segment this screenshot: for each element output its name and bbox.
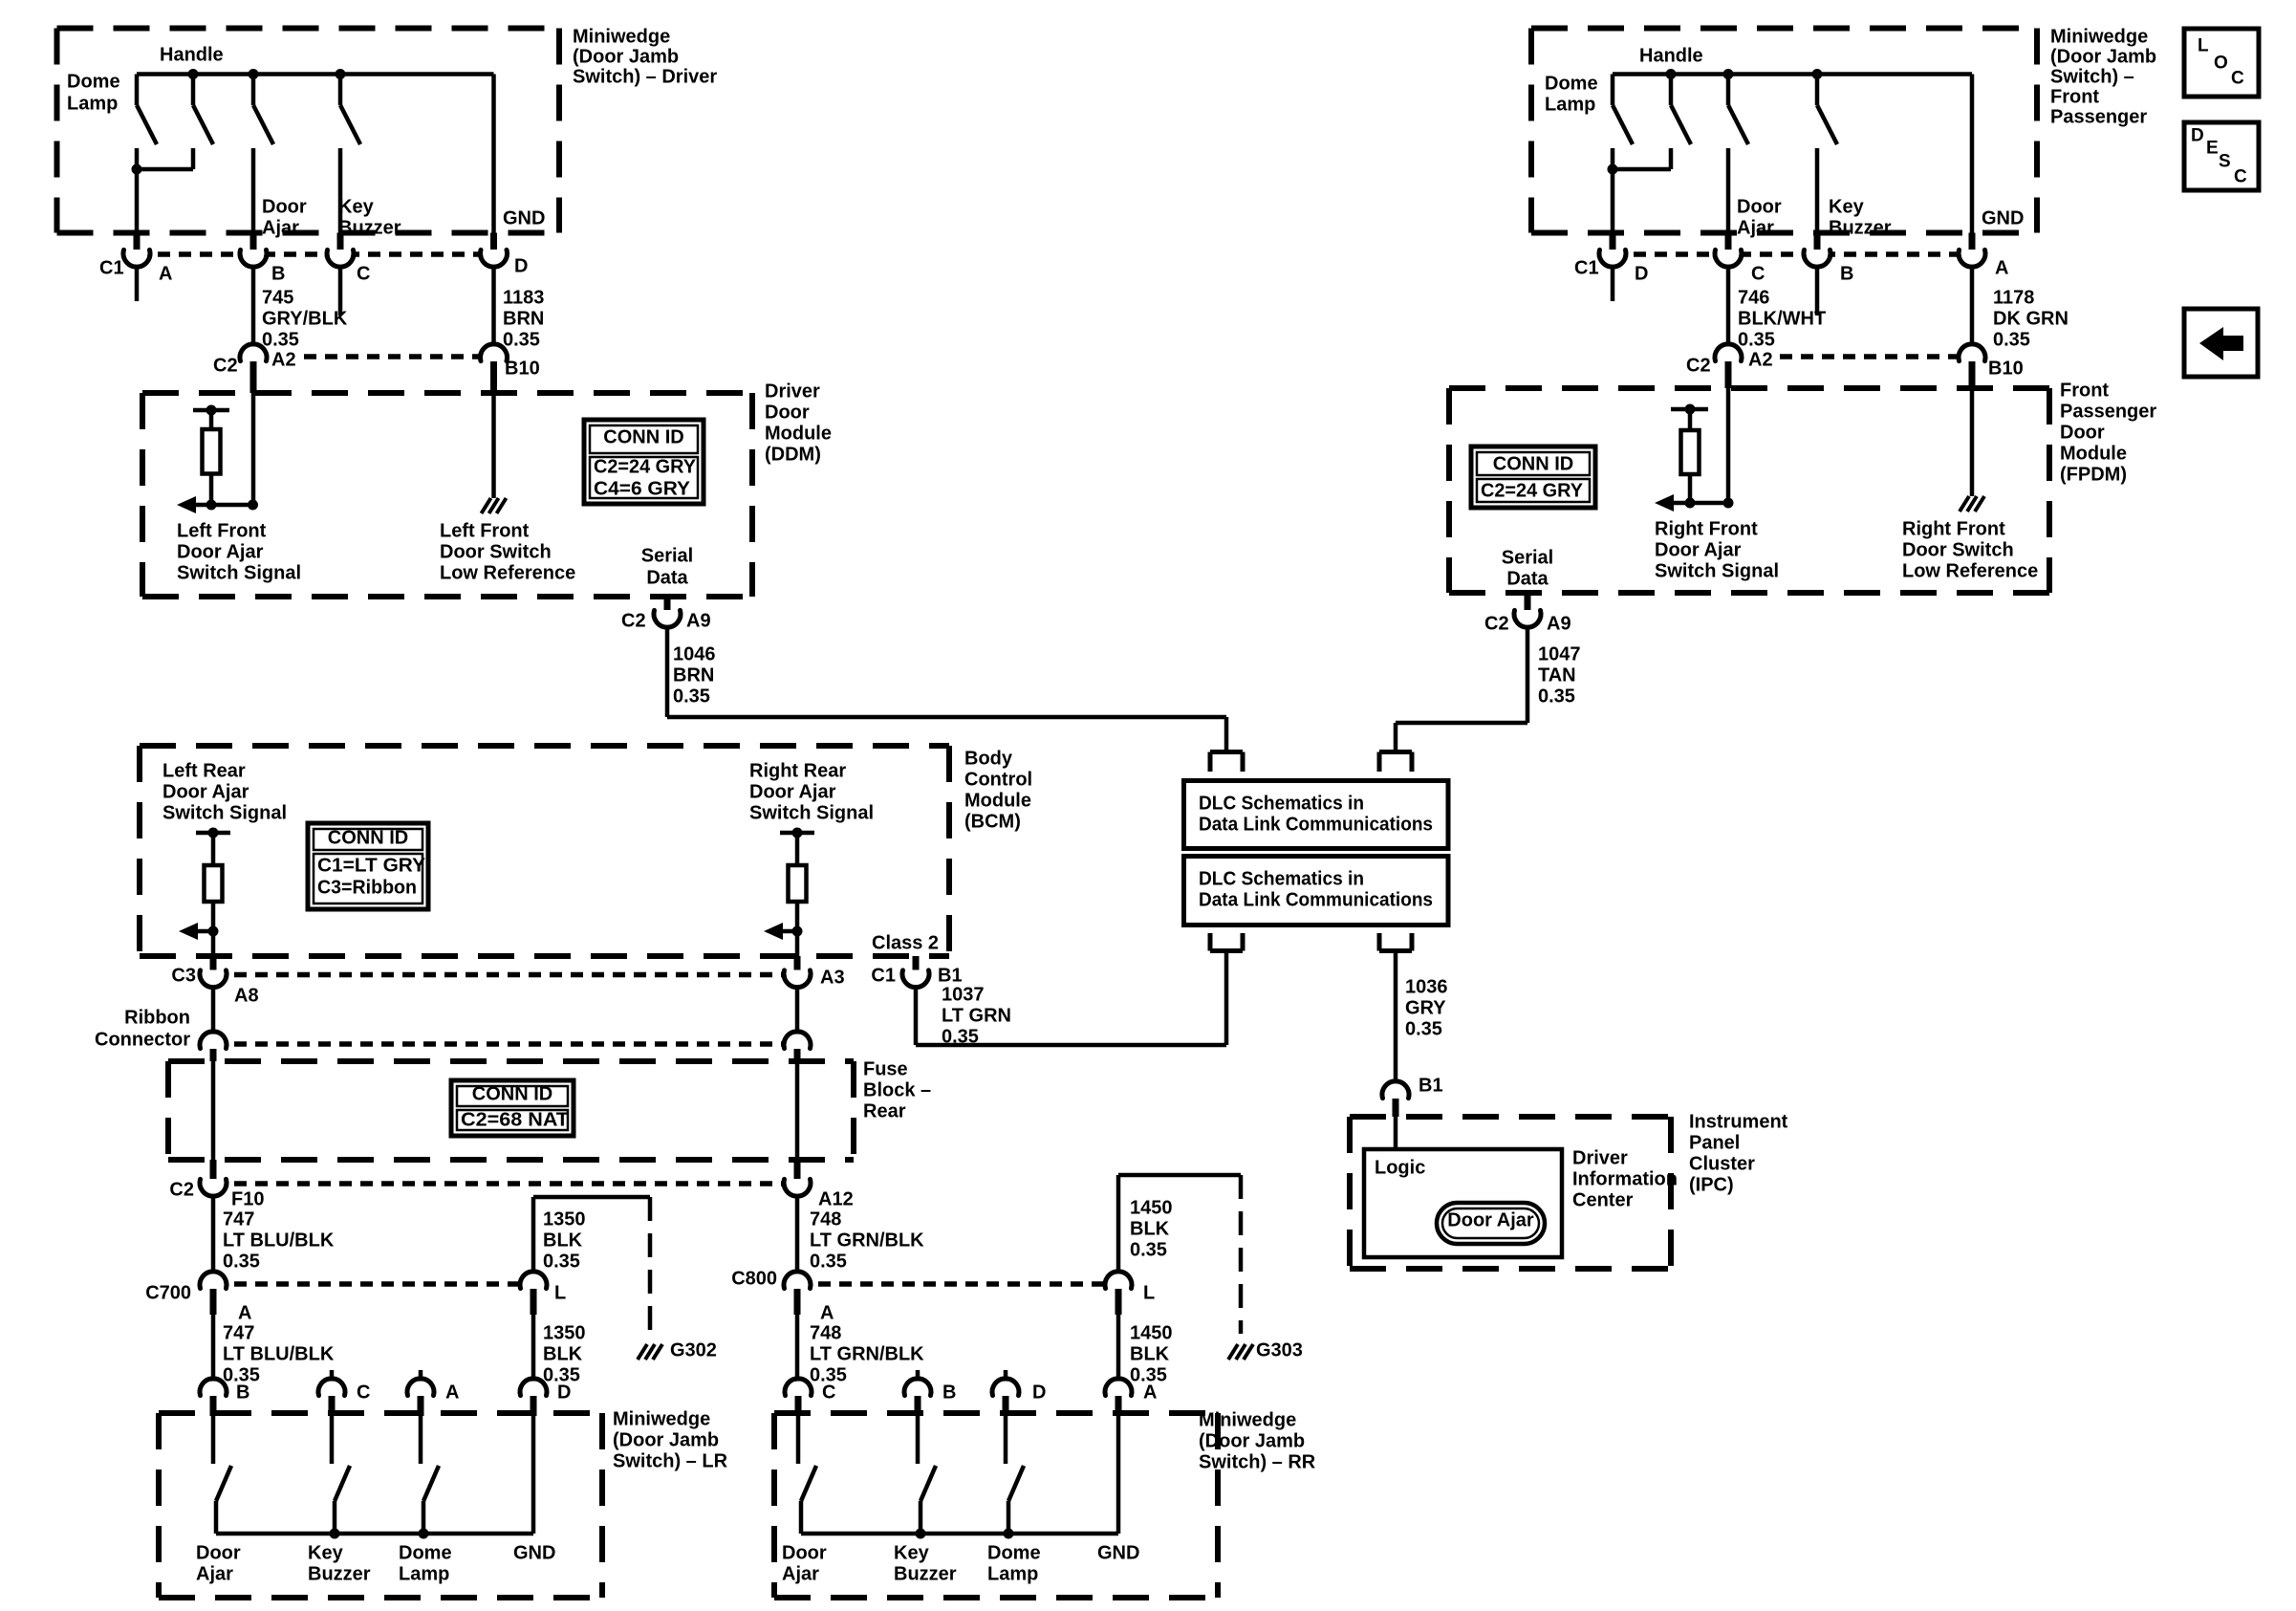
arrow right front door ajar switch signal (1666, 501, 1728, 506)
svg-text:Door Ajar: Door Ajar (1655, 539, 1742, 560)
svg-text:Lamp: Lamp (1545, 94, 1595, 115)
wire 1047 TAN run (1526, 625, 1530, 723)
svg-text:Connector: Connector (95, 1029, 190, 1050)
svg-text:0.35: 0.35 (503, 329, 540, 350)
svg-text:Key: Key (1829, 196, 1865, 217)
svg-text:0.35: 0.35 (942, 1026, 979, 1047)
svg-text:Information: Information (1572, 1168, 1678, 1189)
svg-text:C2: C2 (1686, 355, 1711, 376)
switch dome lamp (RR) (1004, 1416, 1008, 1464)
svg-text:Passenger: Passenger (2050, 106, 2147, 127)
svg-text:A2: A2 (271, 349, 296, 370)
svg-text:Low Reference: Low Reference (1902, 560, 2038, 581)
wire tab bottom right (1379, 948, 1412, 953)
svg-text:Center: Center (1572, 1189, 1634, 1210)
pin A3 connector (BCM) (787, 963, 809, 985)
svg-text:A2: A2 (1748, 349, 1773, 370)
svg-text:Low Reference: Low Reference (440, 562, 575, 583)
svg-text:C1: C1 (1574, 257, 1599, 278)
svg-text:(Door Jamb: (Door Jamb (613, 1429, 719, 1450)
wire B1 to logic (1394, 1117, 1398, 1149)
svg-text:BRN: BRN (503, 308, 544, 329)
resistor BCM left rear T-bar (196, 831, 230, 836)
svg-text:CONN ID: CONN ID (603, 426, 683, 447)
svg-text:LT GRN: LT GRN (942, 1005, 1011, 1026)
wire switch common (LR) (216, 1532, 533, 1536)
svg-text:C: C (2231, 69, 2244, 89)
pin B10 connector (FPDM) (1961, 347, 1983, 369)
svg-text:Dome: Dome (1545, 73, 1598, 94)
svg-text:Rear: Rear (863, 1100, 906, 1121)
svg-text:Data: Data (1506, 568, 1549, 589)
svg-text:1450: 1450 (1130, 1322, 1173, 1343)
svg-text:LT BLU/BLK: LT BLU/BLK (223, 1343, 335, 1364)
pin B1 connector (IPC) (1385, 1084, 1407, 1106)
svg-text:0.35: 0.35 (223, 1251, 260, 1272)
svg-text:Ajar: Ajar (196, 1563, 233, 1584)
miniwedge door jamb switch RR box (774, 1410, 1218, 1416)
svg-text:Buzzer: Buzzer (308, 1563, 371, 1584)
svg-text:Miniwedge: Miniwedge (2050, 26, 2148, 47)
svg-text:Switch) – RR: Switch) – RR (1199, 1451, 1316, 1472)
pin A2 connector C2 (FPDM) (1718, 347, 1740, 369)
svg-text:Control: Control (964, 769, 1032, 790)
svg-text:C1=LT GRY: C1=LT GRY (317, 855, 426, 876)
svg-text:GND: GND (1097, 1542, 1139, 1563)
wire B10 to ground (FPDM) (1970, 388, 1975, 496)
pin A9 connector C2 serial (FPDM) (1517, 603, 1539, 625)
resistor BCM left rear (205, 865, 223, 902)
wire 748 through fuse block (795, 1061, 800, 1160)
svg-text:(Door Jamb: (Door Jamb (573, 46, 679, 67)
svg-text:0.35: 0.35 (543, 1251, 580, 1272)
pin C connector (LR switch) (330, 1370, 335, 1382)
svg-text:Switch Signal: Switch Signal (749, 802, 874, 823)
svg-text:CONN ID: CONN ID (328, 827, 408, 848)
pin C stub end (driver) (338, 265, 343, 316)
svg-text:CONN ID: CONN ID (472, 1083, 552, 1104)
ground G302 (638, 1344, 647, 1360)
svg-text:Right Front: Right Front (1655, 518, 1758, 539)
svg-text:GND: GND (503, 207, 545, 229)
svg-text:Cluster: Cluster (1689, 1153, 1755, 1174)
svg-text:Key: Key (894, 1542, 930, 1563)
wire 1450 BLK to G303 (1116, 1175, 1121, 1274)
svg-text:G302: G302 (670, 1339, 717, 1361)
wire resistor to arrow (RR) (795, 902, 800, 956)
switch dome lamp blade2 (passenger) (1669, 75, 1674, 106)
pin C connector C1 (passenger) (1718, 243, 1740, 265)
wire A2 to arrow node (DDM) (251, 393, 256, 505)
pin D connector C1 (driver) (483, 243, 505, 265)
switch key buzzer (passenger) (1815, 75, 1820, 106)
wire 748 to RR switch (795, 1315, 800, 1382)
svg-text:C2: C2 (213, 355, 238, 376)
svg-text:0.35: 0.35 (1130, 1239, 1167, 1260)
connector row C2 fuse block (213, 1181, 797, 1186)
wire resistor to arrow (LR) (211, 902, 216, 956)
svg-text:Passenger: Passenger (2060, 401, 2156, 422)
svg-text:C1: C1 (871, 965, 896, 986)
pin A8 connector C3 (BCM) (203, 963, 225, 985)
wire 747 through fuse block (211, 1061, 216, 1160)
pin ribbon connector right (787, 1034, 809, 1056)
junction dot key buzzer (LR) (330, 1529, 340, 1539)
svg-text:1183: 1183 (503, 287, 544, 308)
junction dot handle-keybuzzer (passenger) (1812, 69, 1823, 79)
svg-text:BLK: BLK (543, 1343, 583, 1364)
svg-text:Door: Door (262, 196, 307, 217)
svg-text:Miniwedge: Miniwedge (573, 26, 670, 47)
svg-text:C2=24 GRY: C2=24 GRY (1481, 480, 1584, 501)
junction dot dome lamp (driver) (132, 164, 142, 175)
svg-text:D: D (557, 1382, 571, 1403)
svg-text:Module: Module (2060, 443, 2127, 464)
svg-text:(Door Jamb: (Door Jamb (2050, 46, 2156, 67)
svg-text:Door Ajar: Door Ajar (749, 781, 836, 802)
svg-text:Switch Signal: Switch Signal (162, 802, 287, 823)
connector row C2 (DDM) (304, 354, 494, 359)
svg-text:Block –: Block – (863, 1079, 931, 1100)
switch door ajar (LR) (211, 1416, 216, 1464)
svg-text:(DDM): (DDM) (765, 444, 821, 465)
svg-text:BLK: BLK (1130, 1343, 1170, 1364)
svg-text:Key: Key (338, 196, 375, 217)
svg-text:Lamp: Lamp (987, 1563, 1038, 1584)
pin C connector (RR switch) (788, 1382, 810, 1404)
svg-text:(IPC): (IPC) (1689, 1174, 1734, 1195)
resistor FPDM pullup T-bar (1671, 407, 1708, 412)
svg-text:Door: Door (196, 1542, 241, 1563)
svg-text:C3: C3 (171, 965, 196, 986)
pin A12 connector (fuse block) (787, 1172, 809, 1194)
svg-text:C700: C700 (145, 1282, 191, 1303)
svg-text:745: 745 (262, 287, 293, 308)
pin B connector (RR switch) (916, 1370, 921, 1382)
pin A connector C1 (driver) (126, 243, 148, 265)
junction dot resistor-arrow (FPDM) (1685, 498, 1696, 509)
svg-text:TAN: TAN (1538, 664, 1576, 686)
svg-text:GRY: GRY (1405, 997, 1446, 1018)
pin A connector C1 (passenger) (1961, 243, 1983, 265)
svg-text:A: A (445, 1382, 459, 1403)
svg-text:Miniwedge: Miniwedge (613, 1408, 710, 1429)
conn id table BCM (308, 823, 428, 909)
svg-text:BRN: BRN (673, 664, 714, 686)
svg-text:Switch) – LR: Switch) – LR (613, 1450, 728, 1471)
pin A connector (RR switch) (1108, 1382, 1130, 1404)
svg-text:Left Front: Left Front (177, 520, 267, 541)
svg-text:A8: A8 (234, 985, 259, 1006)
junction dot handle-doorajar (driver) (249, 69, 259, 79)
svg-text:0.35: 0.35 (1405, 1018, 1442, 1039)
wire A2 to arrow node (FPDM) (1726, 388, 1731, 503)
svg-text:C800: C800 (731, 1268, 777, 1289)
wire 1036 GRY run (1394, 951, 1398, 1081)
svg-text:1178: 1178 (1993, 287, 2034, 308)
svg-text:Switch Signal: Switch Signal (1655, 560, 1779, 581)
arrow left rear door ajar switch signal (190, 929, 213, 934)
svg-text:L: L (2198, 36, 2209, 56)
svg-text:Front: Front (2050, 86, 2099, 107)
svg-text:Ajar: Ajar (262, 217, 299, 238)
svg-text:BLK: BLK (1130, 1218, 1170, 1239)
junction dot dome lamp (LR) (419, 1529, 429, 1539)
miniwedge door jamb switch front passenger box (1531, 26, 2037, 32)
instrument panel cluster IPC box (1350, 1114, 1671, 1120)
pin B stub end (passenger) (1815, 265, 1820, 316)
junction dot arrow (RR) (792, 926, 803, 937)
connector row C700 (213, 1281, 533, 1287)
svg-text:Module: Module (765, 423, 832, 444)
svg-text:Dome: Dome (67, 71, 120, 92)
svg-text:B: B (271, 263, 285, 284)
svg-text:Door Ajar: Door Ajar (162, 781, 249, 802)
resistor BCM right rear T-bar (780, 831, 814, 836)
svg-text:748: 748 (810, 1322, 841, 1343)
svg-text:747: 747 (223, 1208, 254, 1230)
junction dot arrow (LR) (208, 926, 219, 937)
svg-text:Data Link Communications: Data Link Communications (1199, 814, 1433, 835)
ground G303 (1228, 1344, 1238, 1360)
svg-text:C4=6 GRY: C4=6 GRY (594, 478, 691, 499)
svg-text:C3=Ribbon: C3=Ribbon (317, 877, 417, 898)
svg-text:Body: Body (964, 748, 1013, 769)
svg-text:1350: 1350 (543, 1208, 586, 1230)
pin D connector (LR switch) (523, 1382, 545, 1404)
DLC schematics box 1 (1184, 781, 1449, 849)
conn id table FPDM (1471, 446, 1595, 508)
wire 1046 BRN run (665, 625, 670, 717)
junction dot handle-dome (passenger) (1666, 69, 1677, 79)
wire A8 to ribbon connector (211, 986, 216, 1035)
conn id table fuse block (451, 1080, 574, 1136)
svg-text:Left Front: Left Front (440, 520, 530, 541)
wire 748 to C800 (795, 1194, 800, 1274)
svg-text:G303: G303 (1256, 1339, 1303, 1361)
svg-text:Door: Door (765, 402, 810, 423)
svg-text:S: S (2219, 152, 2231, 172)
wire tab top right (1379, 750, 1412, 754)
svg-text:Data Link Communications: Data Link Communications (1199, 889, 1433, 910)
connector row C2 (FPDM) (1780, 354, 1972, 359)
switch dome lamp blade2 (driver) (191, 75, 196, 106)
switch dome lamp (LR) (419, 1416, 423, 1464)
svg-text:D: D (2191, 126, 2204, 146)
svg-text:(BCM): (BCM) (964, 811, 1021, 832)
resistor DDM (203, 429, 221, 474)
svg-text:Ajar: Ajar (1737, 217, 1774, 238)
wire resistor to arrow (DDM) (209, 474, 214, 506)
pin L connector C700 (523, 1274, 545, 1296)
svg-text:1047: 1047 (1538, 643, 1581, 664)
arrow right rear door ajar switch signal (775, 929, 797, 934)
svg-text:C: C (357, 1382, 370, 1403)
switch key buzzer (LR) (330, 1416, 335, 1464)
junction dot A2-arrow (DDM) (248, 500, 258, 511)
pin B10 connector (DDM) (483, 347, 505, 369)
switch key buzzer (RR) (916, 1416, 921, 1464)
svg-text:Door: Door (1737, 196, 1782, 217)
svg-text:LT BLU/BLK: LT BLU/BLK (223, 1230, 335, 1251)
connector row C800 (797, 1281, 1118, 1287)
pin A2 connector C2 (DDM) (243, 347, 265, 369)
pin A connector C700 (203, 1274, 225, 1296)
svg-text:C: C (357, 263, 370, 284)
svg-text:Key: Key (308, 1542, 344, 1563)
svg-text:C2: C2 (169, 1179, 194, 1200)
svg-text:Module: Module (964, 790, 1031, 811)
svg-text:DK GRN: DK GRN (1993, 308, 2069, 329)
connector row C1 (driver) (137, 251, 494, 257)
svg-text:A: A (820, 1302, 834, 1323)
pin C connector C1 (driver) (330, 243, 352, 265)
junction dot key buzzer (RR) (916, 1529, 926, 1539)
svg-text:748: 748 (810, 1208, 841, 1230)
svg-text:GND: GND (513, 1542, 555, 1563)
driver door module DDM box (142, 390, 752, 396)
wire 1450 to RR switch (1116, 1315, 1121, 1382)
arrow left front door ajar switch signal (188, 503, 253, 508)
svg-text:1450: 1450 (1130, 1197, 1173, 1218)
svg-text:C2: C2 (621, 610, 646, 631)
junction dot A2-arrow (FPDM) (1723, 498, 1734, 509)
door ajar indicator (1437, 1203, 1545, 1244)
svg-text:A: A (238, 1302, 251, 1323)
svg-text:Lamp: Lamp (67, 93, 118, 114)
svg-text:O: O (2214, 54, 2228, 74)
wire tab bottom left (1210, 948, 1243, 953)
svg-text:1046: 1046 (673, 643, 716, 664)
svg-text:DLC Schematics in: DLC Schematics in (1199, 793, 1364, 814)
wire 746 BLK/WHT segment1 (1726, 265, 1731, 345)
resistor DDM pullup T-bar (193, 408, 229, 413)
switch dome lamp blade1 (driver) (137, 105, 157, 144)
svg-text:C: C (1751, 263, 1765, 284)
svg-text:Front: Front (2060, 380, 2109, 401)
svg-text:Miniwedge: Miniwedge (1199, 1409, 1296, 1430)
logic box (IPC) (1364, 1149, 1562, 1257)
pin L connector C800 (1108, 1274, 1130, 1296)
svg-text:B10: B10 (505, 358, 540, 379)
wire 747 to LR switch (211, 1315, 216, 1382)
svg-text:Ajar: Ajar (782, 1563, 819, 1584)
svg-text:Switch) –: Switch) – (2050, 66, 2134, 87)
pin B connector (LR switch) (203, 1382, 225, 1404)
wire tab top left (1210, 750, 1243, 754)
svg-text:A12: A12 (818, 1188, 854, 1209)
svg-text:D: D (1032, 1382, 1046, 1403)
connector row C1 (passenger) (1613, 251, 1972, 257)
wire switch common (RR) (801, 1532, 1118, 1536)
svg-text:1350: 1350 (543, 1322, 586, 1343)
svg-text:A3: A3 (820, 967, 845, 988)
wire 747 to C700 (211, 1194, 216, 1274)
svg-text:Panel: Panel (1689, 1132, 1740, 1153)
svg-text:0.35: 0.35 (1538, 686, 1575, 707)
junction dot dome lamp (passenger) (1608, 164, 1618, 175)
ground right front door switch low reference (1960, 496, 1969, 512)
svg-text:C: C (2234, 167, 2247, 187)
wire 1183 BRN segment1 (491, 265, 496, 345)
wire A3 to ribbon connector (795, 986, 800, 1035)
svg-text:D: D (514, 255, 528, 276)
pin A stub end (driver) (135, 265, 140, 301)
svg-text:(FPDM): (FPDM) (2060, 464, 2127, 485)
svg-text:BLK: BLK (543, 1230, 583, 1251)
connector row ribbon (213, 1041, 797, 1047)
svg-text:Data: Data (646, 567, 688, 588)
svg-text:Serial: Serial (641, 545, 693, 566)
pin A9 connector C2 serial (DDM) (657, 603, 679, 625)
wire 1350 BLK to G302 (531, 1197, 536, 1274)
svg-text:Class 2: Class 2 (872, 932, 939, 953)
svg-text:CONN ID: CONN ID (1493, 453, 1573, 474)
svg-text:B10: B10 (1988, 358, 2024, 379)
svg-text:0.35: 0.35 (262, 329, 299, 350)
ground left front door switch low reference (482, 498, 491, 513)
svg-text:Fuse: Fuse (863, 1058, 908, 1079)
wire handle bus (driver) (137, 72, 494, 76)
wire GND (RR) (1116, 1416, 1121, 1534)
svg-text:Logic: Logic (1375, 1157, 1425, 1178)
svg-text:D: D (1635, 263, 1648, 284)
svg-text:GRY/BLK: GRY/BLK (262, 308, 348, 329)
svg-text:0.35: 0.35 (1738, 329, 1775, 350)
svg-text:Switch) – Driver: Switch) – Driver (573, 66, 717, 87)
switch dome lamp blade1 (passenger) (1613, 105, 1633, 144)
svg-text:Buzzer: Buzzer (1829, 217, 1892, 238)
resistor FPDM (1681, 430, 1700, 474)
junction dot handle-dome (driver) (188, 69, 199, 79)
wire GND (LR) (531, 1416, 536, 1534)
svg-text:Handle: Handle (1639, 45, 1703, 66)
svg-text:Door Ajar: Door Ajar (1447, 1209, 1534, 1230)
svg-text:LT GRN/BLK: LT GRN/BLK (810, 1343, 924, 1364)
svg-text:Dome: Dome (987, 1542, 1041, 1563)
fuse block rear box (168, 1058, 854, 1064)
svg-text:B1: B1 (1419, 1075, 1443, 1096)
pin B connector C1 (driver) (243, 243, 265, 265)
svg-text:E: E (2206, 139, 2219, 159)
svg-text:GND: GND (1982, 207, 2024, 229)
svg-text:Right Front: Right Front (1902, 518, 2005, 539)
svg-text:Driver: Driver (765, 381, 820, 402)
svg-text:(Door Jamb: (Door Jamb (1199, 1430, 1305, 1451)
svg-text:B: B (942, 1382, 956, 1403)
svg-text:Instrument: Instrument (1689, 1111, 1788, 1132)
miniwedge door jamb switch driver box (57, 26, 560, 32)
svg-text:C2=68 NAT: C2=68 NAT (461, 1109, 569, 1130)
svg-text:L: L (1143, 1282, 1155, 1303)
svg-text:Door Switch: Door Switch (440, 541, 552, 562)
svg-text:A: A (1995, 257, 2008, 278)
wire 1350 to LR switch (531, 1315, 536, 1382)
svg-text:Serial: Serial (1502, 547, 1553, 568)
wire 1037 LT GRN run (914, 986, 919, 1045)
svg-text:Dome: Dome (399, 1542, 452, 1563)
svg-text:DLC Schematics in: DLC Schematics in (1199, 868, 1364, 889)
pin F10 connector C2 (fuse block) (203, 1172, 225, 1194)
junction dot resistor-arrow (DDM) (206, 500, 217, 511)
wire resistor to arrow (FPDM) (1688, 474, 1693, 503)
miniwedge door jamb switch LR box (159, 1410, 602, 1416)
pin D connector (RR switch) (1004, 1370, 1008, 1382)
switch door ajar (RR) (796, 1416, 801, 1464)
wire handle bus (passenger) (1613, 72, 1972, 76)
svg-text:B1: B1 (938, 965, 963, 986)
svg-text:BLK/WHT: BLK/WHT (1738, 308, 1826, 329)
